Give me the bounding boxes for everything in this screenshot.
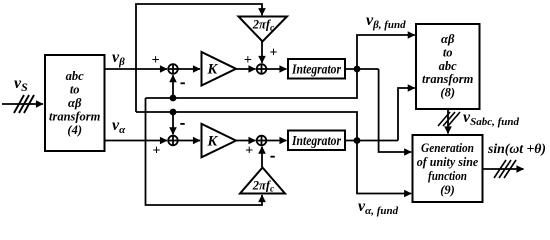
- svg-text:abc: abc: [439, 59, 458, 73]
- svg-text:+: +: [245, 143, 253, 158]
- wire line2 left leg up to top rail and into top 2pifc: [136, 4, 262, 112]
- wire S1 to K top: [178, 68, 200, 70]
- svg-text:transform: transform: [49, 110, 101, 124]
- svg-text:vβ: vβ: [112, 49, 125, 68]
- summer S1b bottom: [168, 136, 178, 146]
- junction dot N2: [354, 137, 361, 144]
- wire line1 left leg down to bottom rail: [146, 98, 263, 205]
- block Integrator top: [288, 59, 345, 79]
- svg-text:abc: abc: [66, 69, 85, 83]
- svg-text:αβ: αβ: [441, 32, 455, 46]
- svg-text:Integrator: Integrator: [291, 133, 341, 148]
- triangle gain 2pifc bottom: [240, 168, 285, 194]
- svg-text:(8): (8): [440, 86, 455, 100]
- wire top 2pifc apex to S2: [261, 42, 263, 63]
- gain K top: [202, 52, 237, 86]
- svg-text:+: +: [152, 53, 160, 68]
- node v_Sabc three-phase slash: [438, 112, 460, 126]
- svg-text:vS: vS: [14, 75, 28, 94]
- svg-text:αβ: αβ: [68, 96, 82, 110]
- svg-text:vα: vα: [112, 117, 126, 136]
- svg-text:Generation: Generation: [421, 141, 474, 155]
- svg-text:to: to: [70, 83, 80, 97]
- sign minus S1b: [180, 123, 184, 125]
- junction dot N1: [354, 66, 361, 73]
- gain K bottom: [202, 124, 237, 158]
- summer S2b bottom: [257, 136, 267, 146]
- wire Integrator top to node N1: [345, 68, 379, 70]
- svg-text:to: to: [443, 45, 453, 59]
- svg-text:vSabc, fund: vSabc, fund: [463, 109, 520, 128]
- wire N1 right-down to Generation input 1: [379, 69, 412, 152]
- wire S1b minus feedback from dot D2: [172, 112, 174, 134]
- wire S2 to Integrator top: [266, 68, 286, 70]
- block abc-to-alphabeta transform (4): [45, 55, 105, 151]
- wire v_Sabc_fund down to Generation block: [447, 109, 449, 134]
- sign minus S1: [181, 82, 185, 84]
- block Integrator bottom: [288, 131, 345, 151]
- svg-text:K: K: [207, 62, 219, 78]
- svg-text:+: +: [269, 46, 277, 61]
- svg-text:vβ, fund: vβ, fund: [366, 12, 406, 31]
- wire N2 down to Generation input 2: [357, 141, 411, 194]
- svg-text:Integrator: Integrator: [291, 62, 341, 77]
- wire K to S2 top: [236, 68, 256, 70]
- summer S2 top: [257, 64, 267, 74]
- wire N1 up to v_beta_fund into block 8: [357, 35, 415, 69]
- wire S1b to K bottom: [178, 140, 200, 142]
- wire S1 minus feedback from dot D1: [172, 75, 174, 98]
- svg-text:function: function: [428, 169, 467, 183]
- wire S2b to Integrator bottom: [266, 140, 286, 142]
- wire vS input: [2, 103, 43, 105]
- svg-text:transform: transform: [422, 72, 474, 86]
- summer S1 top: [168, 64, 178, 74]
- junction dot D2: [170, 109, 177, 116]
- wire feedback line2: [136, 112, 357, 141]
- node output three-phase slash: [494, 160, 516, 178]
- triangle gain 2pifc top: [239, 17, 288, 42]
- wire bottom 2pifc apex to S2b: [261, 147, 263, 168]
- junction dot D1: [170, 95, 177, 102]
- wire Integrator bottom to node N2 and on to riser: [345, 140, 398, 142]
- wire v_alpha: [105, 140, 168, 142]
- block alphabeta-to-abc transform (8): [416, 24, 480, 109]
- svg-text:+: +: [244, 53, 252, 68]
- svg-text:2πfc: 2πfc: [252, 18, 275, 34]
- svg-text:(9): (9): [440, 183, 455, 197]
- node vS three-phase slash: [14, 95, 34, 113]
- svg-text:vα, fund: vα, fund: [358, 198, 399, 217]
- svg-text:K: K: [207, 134, 219, 150]
- wire v_beta: [105, 68, 168, 70]
- wire K to S2b bottom: [236, 140, 256, 142]
- sign minus S2b right: [270, 156, 274, 158]
- wire N2 up riser to block 8 input 2: [398, 88, 415, 141]
- wire feedback line1 from N1 down-left: [146, 69, 358, 98]
- svg-text:2πfc: 2πfc: [252, 179, 275, 195]
- svg-text:+: +: [152, 143, 160, 158]
- svg-text:sin(ωt +θ): sin(ωt +θ): [487, 142, 546, 157]
- svg-text:of unity sine: of unity sine: [417, 155, 479, 169]
- svg-text:(4): (4): [67, 123, 82, 137]
- wire output sin: [483, 168, 524, 170]
- block Generation of unity sine function (9): [413, 135, 483, 202]
